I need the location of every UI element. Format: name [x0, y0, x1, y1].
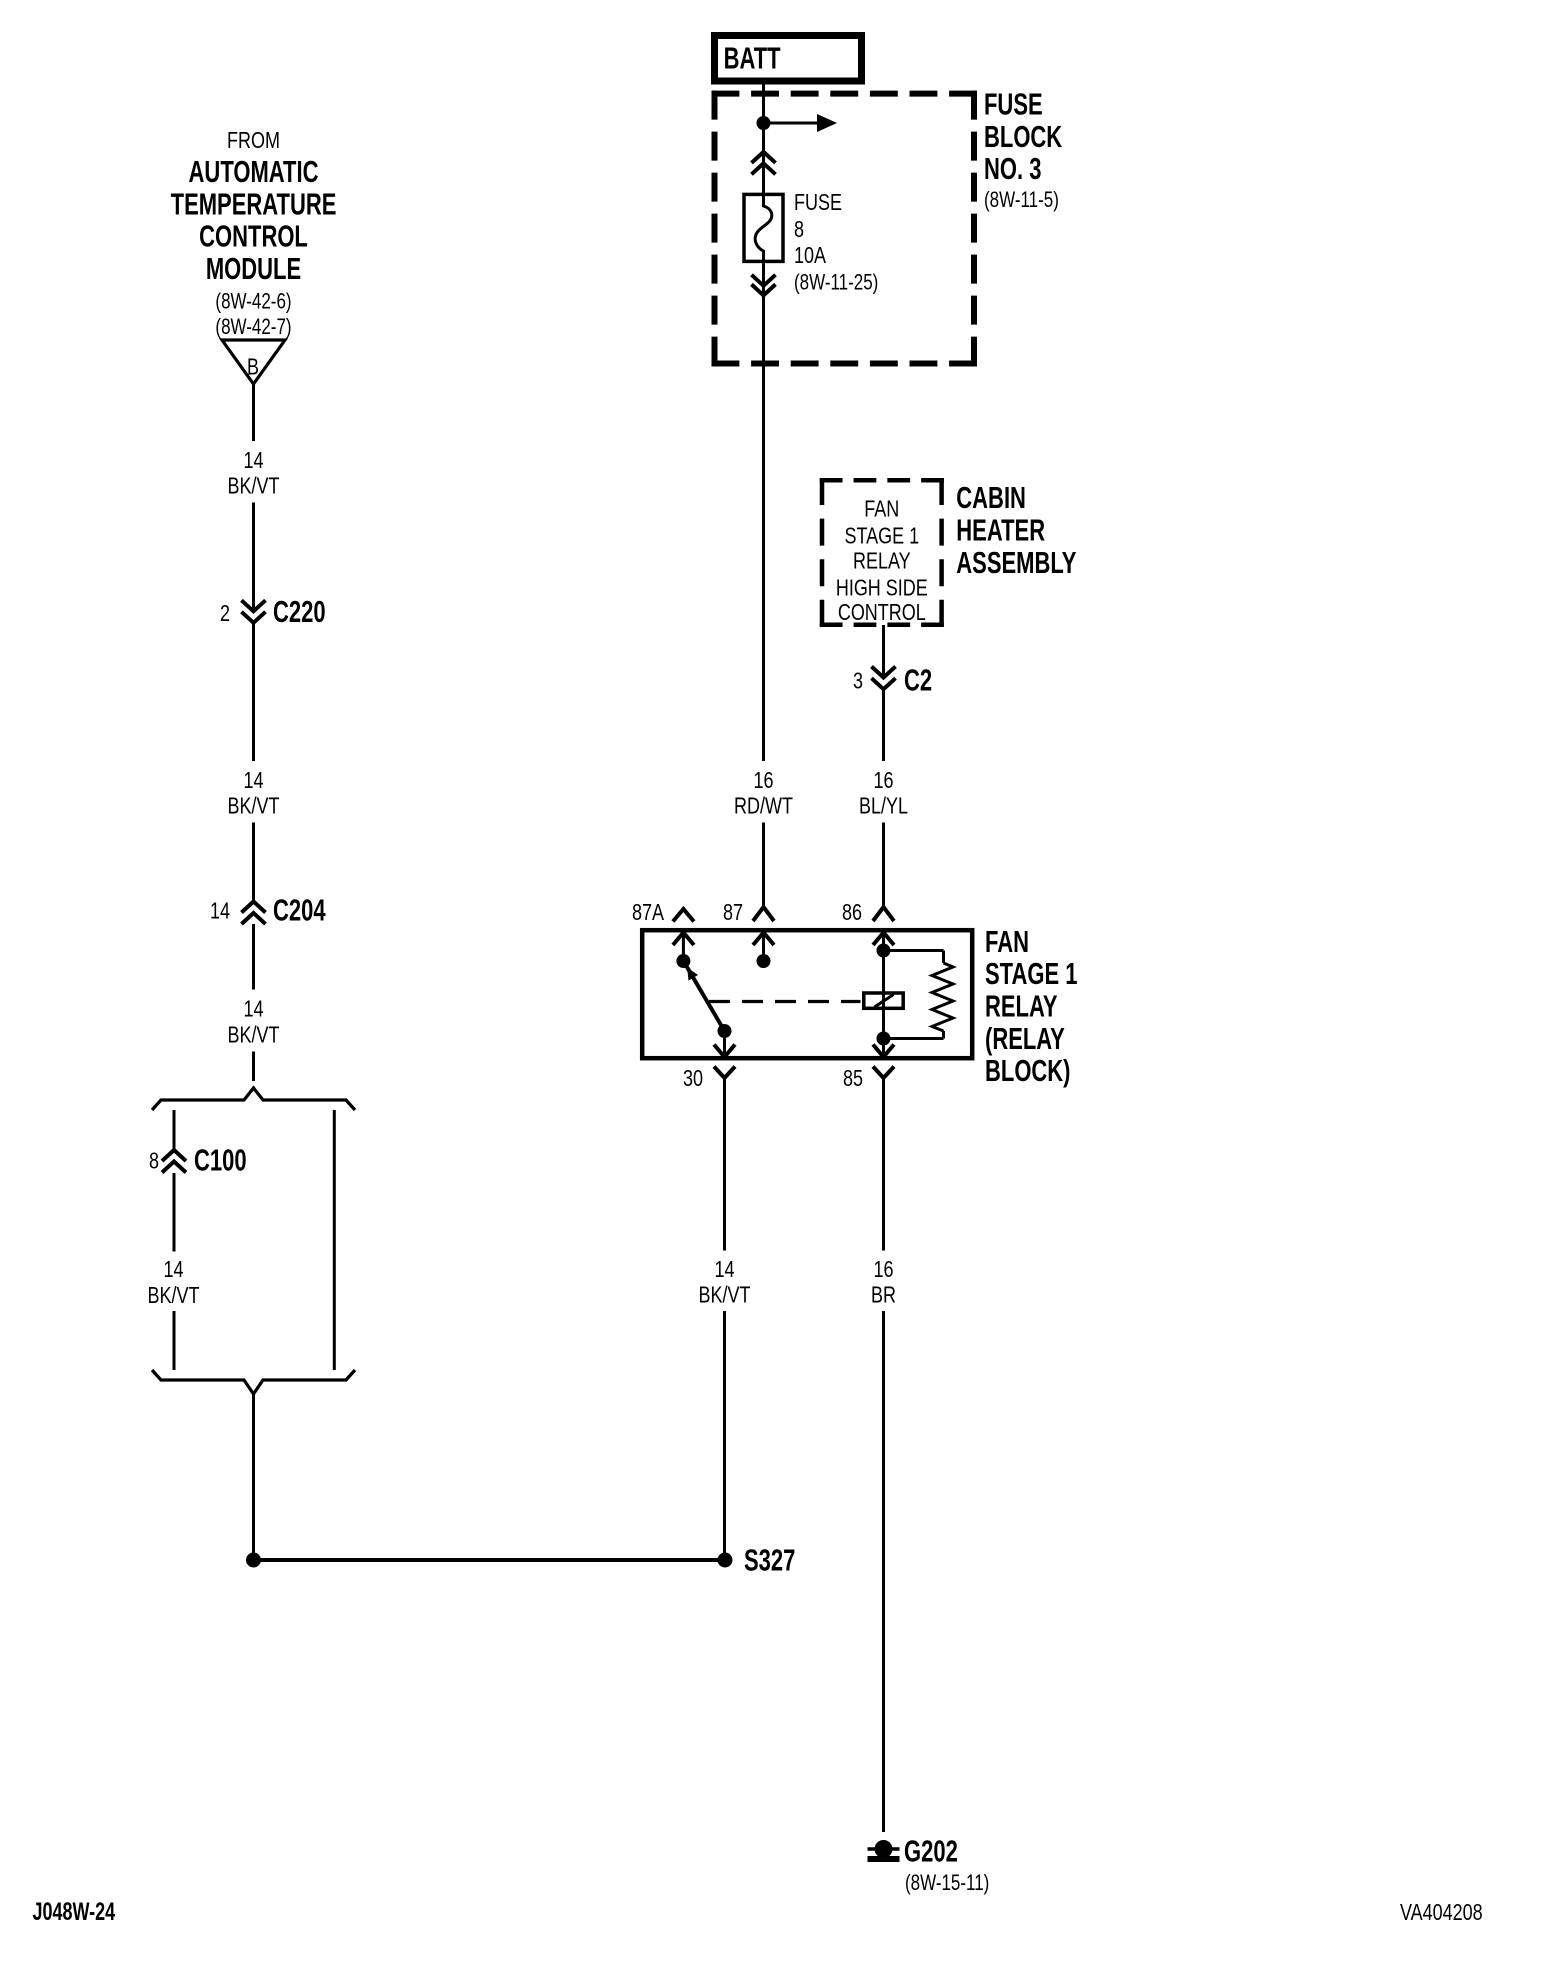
svg-text:S327: S327 — [744, 1543, 795, 1577]
svg-text:FROM: FROM — [227, 128, 280, 154]
svg-text:BK/VT: BK/VT — [228, 1022, 280, 1048]
svg-text:BK/VT: BK/VT — [148, 1283, 200, 1309]
svg-text:FAN: FAN — [864, 496, 899, 522]
svg-text:BLOCK): BLOCK) — [985, 1054, 1071, 1088]
svg-text:BK/VT: BK/VT — [228, 473, 280, 499]
svg-text:87: 87 — [723, 900, 743, 926]
svg-text:STAGE 1: STAGE 1 — [844, 523, 919, 549]
svg-text:NO. 3: NO. 3 — [984, 151, 1041, 185]
svg-text:85: 85 — [843, 1066, 863, 1092]
svg-text:8: 8 — [794, 217, 804, 243]
svg-text:C220: C220 — [273, 594, 326, 628]
svg-text:CONTROL: CONTROL — [838, 600, 926, 626]
svg-text:AUTOMATIC: AUTOMATIC — [189, 155, 319, 189]
svg-text:CONTROL: CONTROL — [199, 219, 308, 253]
svg-text:BATT: BATT — [724, 41, 781, 75]
svg-text:RD/WT: RD/WT — [734, 793, 793, 819]
svg-text:16: 16 — [873, 1257, 893, 1283]
svg-text:14: 14 — [243, 448, 263, 474]
svg-text:CABIN: CABIN — [956, 480, 1026, 514]
svg-text:RELAY: RELAY — [985, 989, 1058, 1023]
svg-text:14: 14 — [163, 1257, 183, 1283]
svg-text:14: 14 — [243, 768, 263, 794]
svg-text:FAN: FAN — [985, 924, 1029, 958]
svg-text:C100: C100 — [194, 1143, 247, 1177]
svg-text:B: B — [247, 354, 259, 380]
svg-text:ASSEMBLY: ASSEMBLY — [956, 545, 1076, 579]
svg-text:14: 14 — [210, 898, 230, 924]
svg-text:BK/VT: BK/VT — [699, 1282, 751, 1308]
svg-text:STAGE 1: STAGE 1 — [985, 957, 1077, 991]
svg-text:FUSE: FUSE — [794, 190, 842, 216]
svg-text:14: 14 — [714, 1257, 734, 1283]
svg-text:3: 3 — [853, 668, 863, 694]
svg-text:(8W-11-5): (8W-11-5) — [984, 188, 1059, 213]
svg-text:14: 14 — [243, 996, 263, 1022]
svg-text:(8W-15-11): (8W-15-11) — [905, 1871, 989, 1896]
svg-text:G202: G202 — [904, 1834, 958, 1868]
svg-text:87A: 87A — [632, 900, 664, 926]
svg-text:HEATER: HEATER — [956, 513, 1045, 547]
svg-text:(8W-42-6): (8W-42-6) — [215, 289, 291, 314]
svg-text:FUSE: FUSE — [984, 87, 1043, 121]
svg-text:(8W-42-7): (8W-42-7) — [215, 315, 291, 340]
svg-text:2: 2 — [220, 601, 230, 627]
svg-text:10A: 10A — [794, 243, 826, 269]
svg-text:C2: C2 — [904, 663, 932, 697]
svg-text:RELAY: RELAY — [853, 548, 911, 574]
svg-text:J048W-24: J048W-24 — [33, 1897, 116, 1926]
svg-text:BK/VT: BK/VT — [228, 793, 280, 819]
svg-text:8: 8 — [149, 1148, 159, 1174]
svg-text:BL/YL: BL/YL — [859, 793, 908, 819]
svg-text:16: 16 — [873, 768, 893, 794]
svg-text:16: 16 — [753, 768, 773, 794]
svg-text:(8W-11-25): (8W-11-25) — [794, 271, 878, 296]
svg-text:BR: BR — [871, 1282, 896, 1308]
svg-text:MODULE: MODULE — [206, 251, 301, 285]
svg-text:TEMPERATURE: TEMPERATURE — [171, 187, 337, 221]
svg-text:VA404208: VA404208 — [1400, 1900, 1483, 1926]
svg-text:C204: C204 — [273, 893, 326, 927]
svg-text:HIGH SIDE: HIGH SIDE — [836, 575, 928, 601]
svg-text:30: 30 — [683, 1066, 703, 1092]
svg-text:BLOCK: BLOCK — [984, 119, 1062, 153]
svg-text:86: 86 — [842, 900, 862, 926]
svg-text:(RELAY: (RELAY — [985, 1021, 1065, 1055]
